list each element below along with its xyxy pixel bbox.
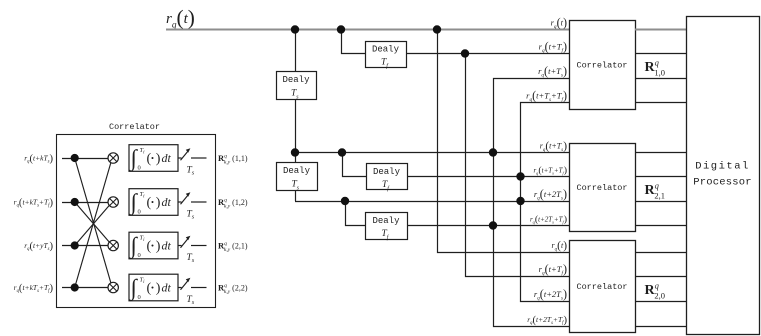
svg-text:•: • [151, 153, 154, 163]
node input 2 [71, 198, 79, 206]
delay block D3 Ts [277, 163, 318, 191]
svg-text:Dealy: Dealy [372, 45, 400, 55]
node input 3 [71, 241, 79, 249]
wire correlator1 output 4 [635, 102, 686, 104]
junction node (295,152.5) [291, 148, 299, 156]
wire tier C branch to Delay Tf 3 [346, 202, 366, 226]
wire diagonal input 4 to multiplier 1 [75, 158, 113, 288]
svg-text:•: • [151, 240, 154, 250]
delay block D4 Tf [367, 164, 408, 190]
svg-text:Processor: Processor [693, 177, 752, 189]
wire row 4 horizontal [62, 287, 108, 289]
wire correlator2 output 1 [635, 152, 686, 154]
digital processor block [687, 17, 760, 335]
multiplier M2 [108, 197, 118, 207]
junction node (295,29.5) [291, 25, 299, 33]
wire row 3 horizontal [62, 245, 108, 247]
wire r_q(t+Ts+Tf) horizontal to correlator 2 [407, 176, 569, 178]
svg-text:Correlator: Correlator [576, 183, 627, 193]
wire junction to Delay Tf 1 [342, 30, 366, 54]
sampler switch 4 [178, 278, 207, 306]
svg-text:rq(t): rq(t) [552, 240, 568, 253]
integrator block 2 [129, 189, 179, 217]
correlator block 3 [570, 241, 636, 333]
junction node (345,201) [341, 197, 349, 205]
correlator block 1 [570, 21, 636, 110]
wire correlator3 output 2 [635, 276, 686, 278]
wire riser r_q(t+Ts+Tf) / r_q(t+2Ts) vertical bus [521, 103, 570, 302]
wire diagonal input 2 to multiplier 3 [75, 202, 113, 246]
delay block D1 Ts [277, 72, 317, 100]
multiplier M3 [108, 240, 118, 250]
svg-text:Correlator: Correlator [576, 282, 627, 292]
wire correlator3 output 1 [635, 252, 686, 254]
svg-text:): ) [156, 281, 161, 296]
delay block D5 Tf [366, 213, 408, 240]
wire correlator2 output 4 [635, 225, 686, 227]
wire tier B branch to Delay Tf 2 [343, 153, 367, 177]
svg-text:Dealy: Dealy [373, 167, 401, 177]
svg-text:Dealy: Dealy [283, 166, 311, 176]
wire tier B r_q(t+Ts) horizontal to correlator 2 [295, 152, 569, 154]
svg-text:0: 0 [138, 165, 141, 172]
wire correlator1 output 3 [635, 78, 686, 80]
multiplier M4 [108, 282, 118, 292]
wire correlator1 output 1 [635, 29, 686, 31]
svg-text:Digital: Digital [695, 161, 750, 173]
wire correlator3 output 3 [635, 301, 686, 303]
svg-text:Correlator: Correlator [576, 61, 627, 71]
svg-text:dt: dt [162, 281, 172, 295]
svg-text:dt: dt [162, 239, 172, 253]
node input 4 [71, 283, 79, 291]
wire D3 output down to tier C [295, 190, 297, 201]
svg-text:): ) [156, 239, 161, 254]
svg-text:): ) [156, 152, 161, 167]
wire riser r_q(t+Ts) / r_q(t+2Ts+Tf) vertical bus [494, 79, 570, 327]
svg-text:0: 0 [138, 252, 141, 259]
wire row 2 horizontal [62, 202, 108, 204]
wire correlator3 output 4 [635, 326, 686, 328]
wire junction to Delay Ts 1 [295, 30, 297, 72]
wire row 1 horizontal [62, 158, 108, 160]
wire correlator2 output 2 [635, 176, 686, 178]
svg-text:Dealy: Dealy [282, 75, 310, 85]
junction node (520.5,201) [516, 197, 524, 205]
junction node (493,225.5) [489, 221, 497, 229]
wire r_q(t) branch down to correlator 3 [438, 30, 570, 253]
delay block D2 Tf [366, 42, 407, 68]
sampler switch 1 [178, 148, 207, 176]
sampler switch 3 [178, 236, 207, 264]
integrator block 3 [129, 232, 179, 260]
junction node (493,152.5) [489, 148, 497, 156]
wire r_q(t+Tf) horizontal to correlator 1 [406, 53, 569, 55]
integrator block 1 [129, 145, 179, 173]
svg-text:0: 0 [138, 209, 141, 216]
svg-text:Dealy: Dealy [372, 216, 400, 226]
wire r_q(t+2Ts+Tf) horizontal to correlator 2 [407, 225, 569, 227]
multiplier M1 [108, 153, 118, 163]
svg-text:dt: dt [162, 195, 172, 209]
wire D1 output down to tier B [295, 99, 297, 162]
wire r_q(t+Tf) branch down to correlator 3 [466, 54, 570, 277]
svg-text:rq(t): rq(t) [551, 15, 567, 30]
wire main r_q(t) horizontal bus [166, 29, 569, 31]
wire correlator1 output 2 [635, 53, 686, 55]
wire diagonal input 1 to multiplier 4 [75, 158, 113, 288]
svg-text:): ) [156, 196, 161, 211]
svg-text:0: 0 [138, 294, 141, 301]
node input 1 [71, 154, 79, 162]
wire correlator2 output 3 [635, 201, 686, 203]
correlator block 2 [570, 144, 636, 232]
integrator block 4 [129, 274, 179, 302]
sampler switch 2 [178, 192, 207, 220]
svg-text:Correlator: Correlator [109, 122, 160, 132]
wire diagonal input 3 to multiplier 2 [75, 202, 113, 246]
svg-text:dt: dt [162, 151, 172, 165]
correlator detail outer box [57, 135, 216, 308]
junction node (341,29.5) [337, 25, 345, 33]
junction node (342,152.5) [338, 148, 346, 156]
junction node (465,53.5) [461, 49, 469, 57]
wire tier C r_q(t+2Ts) horizontal to correlator 2 [295, 201, 569, 203]
svg-text:•: • [151, 197, 154, 207]
junction node (520.5,176.5) [516, 172, 524, 180]
junction node (437,29.5) [433, 25, 441, 33]
svg-text:•: • [151, 282, 154, 292]
